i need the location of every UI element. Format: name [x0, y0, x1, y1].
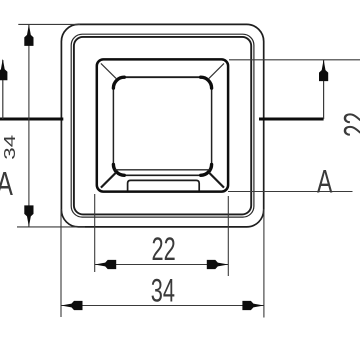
dish front silhouette line	[115, 169, 209, 171]
svg-text:A: A	[0, 167, 13, 203]
svg-text:22: 22	[337, 112, 360, 137]
right dimension 22 arrow (head)	[319, 60, 328, 82]
section view arrow left (head)	[0, 59, 7, 81]
bottom dim 34 arrow right	[242, 301, 264, 310]
section cut thick stroke right	[259, 118, 324, 121]
svg-text:22: 22	[152, 231, 176, 267]
svg-text:34: 34	[151, 272, 175, 308]
top face corner arc BR (thick)	[201, 164, 212, 175]
bottom dim 34 extension left	[60, 209, 62, 317]
bottom dim 22 arrow right	[207, 260, 229, 269]
top face corner arc TR (thick)	[201, 77, 212, 88]
cap outer skirt outline	[61, 24, 263, 227]
svg-text:34: 34	[1, 135, 19, 160]
corner chamfer line TL	[101, 63, 116, 78]
bottom dim 34 arrow left	[61, 301, 83, 310]
bottom dim 22 extension left	[94, 194, 96, 272]
left dim 34 line	[28, 24, 30, 227]
section cut thick stroke left	[0, 118, 63, 121]
skirt inner edge line 1	[71, 34, 254, 217]
extension line bevel bottom to right (A-A baseline)	[228, 191, 353, 193]
left dim 34 arrow down	[24, 205, 33, 227]
bottom dim 34 line	[61, 305, 264, 307]
bottom dim 22 arrow left	[95, 260, 117, 269]
corner chamfer line BL	[101, 172, 116, 187]
bottom dim 22 line	[95, 264, 229, 266]
left dim 34 extension top	[18, 23, 80, 25]
section view arrow left (stem)	[2, 60, 4, 119]
bottom dim 22 extension right	[227, 196, 229, 276]
left dim 34 arrow up	[24, 24, 33, 46]
bevel top outline (thick)	[97, 59, 228, 191]
top face left edge	[112, 88, 114, 164]
top face right edge	[211, 88, 213, 164]
bottom dim 34 extension right	[263, 209, 265, 318]
left dim 34 extension bottom	[17, 226, 85, 228]
extension line bevel top to right	[229, 59, 360, 61]
top face top edge	[124, 76, 200, 78]
bottom groove outline	[128, 180, 200, 190]
corner chamfer line TR	[209, 63, 224, 78]
right dimension 22 line (stem)	[323, 60, 325, 119]
corner chamfer line BR	[209, 172, 224, 187]
top face bottom edge	[124, 174, 203, 176]
top face corner arc TL (thick)	[113, 77, 124, 88]
svg-text:A: A	[317, 164, 333, 200]
top face corner arc BL (thick)	[113, 164, 124, 175]
skirt inner edge line 2	[74, 37, 251, 215]
